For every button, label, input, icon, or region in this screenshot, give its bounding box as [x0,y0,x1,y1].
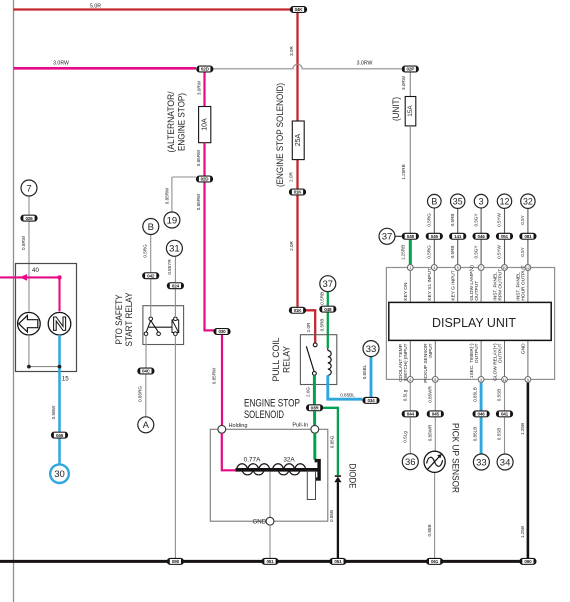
wire 0.5RG node B to relay [142,235,150,317]
svg-text:1.25RB: 1.25RB [401,245,406,260]
pickup sensor [424,451,445,472]
node 12 [497,194,511,208]
connector 046 glow lamp [473,233,490,240]
connector 048 relay coil [319,306,336,313]
svg-text:0.85RW: 0.85RW [212,367,217,384]
connector 090 gnd display [519,558,536,565]
svg-text:04C: 04C [142,369,151,374]
pin label GLOW RELAY(+) OUTPUT [492,343,503,381]
wire 2.0G relay to pull-in [305,375,314,425]
svg-text:(ALTERNATOR/: (ALTERNATOR/ [166,91,177,152]
svg-text:0.5RB: 0.5RB [319,292,324,305]
connector 081 hour [519,233,536,240]
wire 0.5RW node 7 to cluster [21,196,29,311]
pin label PICKUP SENSOR INPUT [423,343,434,383]
label PULL COIL RELAY [271,337,292,382]
wire 3.0RW drop to fuse 15A [401,73,410,97]
svg-text:A: A [143,420,150,431]
svg-text:045: 045 [432,412,440,417]
svg-text:37: 37 [323,279,334,290]
svg-text:3.0RW: 3.0RW [196,80,201,95]
wire 3.0RW link to unit fuse (hop over red) [213,61,402,69]
svg-text:GND: GND [521,343,527,354]
svg-text:34: 34 [500,457,511,468]
DISPLAY UNIT outer box [386,268,554,380]
node 35 [451,194,465,208]
svg-text:0.5Lg: 0.5Lg [403,389,408,401]
svg-text:3.0RW: 3.0RW [357,61,373,67]
svg-text:(UNIT): (UNIT) [391,97,401,121]
svg-text:12: 12 [526,266,530,270]
svg-text:5.0R: 5.0R [90,3,101,9]
svg-text:048: 048 [407,234,415,239]
wire 0.85RW below fuse 10A [196,143,205,176]
node 7 [21,180,37,196]
svg-text:0.5GY: 0.5GY [473,213,478,226]
svg-text:4: 4 [433,266,435,270]
svg-text:0.85RW: 0.85RW [196,193,201,210]
svg-text:0.85RW: 0.85RW [165,187,170,204]
node B [143,219,159,235]
connector 03R pull-in [306,404,323,411]
connector 051 rpm [496,233,513,240]
svg-text:40: 40 [32,267,39,274]
node 37 feed link [395,235,402,237]
svg-text:044: 044 [407,412,415,417]
connector 051 gnd diode [329,558,346,565]
svg-text:0.85B: 0.85B [329,510,334,522]
solenoid box [210,429,327,521]
display unit pins top [407,265,530,271]
wire 1.25RB green into display KEY ON [401,240,411,268]
svg-text:B: B [431,196,437,206]
pin Holding [218,423,248,433]
svg-text:0.5Lg: 0.5Lg [403,431,408,443]
pin label INST. PANEL HOUR OUTPUT [516,265,527,300]
svg-text:Holding: Holding [229,423,248,429]
PTO relay coil [172,317,179,336]
connector 041 glow relay [496,410,513,417]
svg-text:3: 3 [479,196,484,206]
connector 046 neutral [51,432,68,439]
svg-text:045: 045 [431,234,439,239]
solenoid core bar [236,468,319,472]
svg-text:RPM OUTPUT: RPM OUTPUT [497,269,503,301]
svg-text:042: 042 [147,273,155,278]
svg-text:3.0RW: 3.0RW [53,61,69,67]
node 34 [497,454,513,470]
wire 0.85G to diode [323,408,338,475]
wire 0.85BL node 33 drop [362,357,371,397]
solenoid coil 0.77A [237,456,270,474]
svg-text:Pull-In: Pull-In [292,422,308,428]
svg-text:048: 048 [324,307,332,312]
svg-text:02P: 02P [407,67,415,72]
pin label COOLANT TEMP. SWITCH(-)INPUT [398,343,409,381]
svg-text:OUTPUT: OUTPUT [497,343,503,363]
svg-text:081: 081 [524,234,532,239]
svg-text:0.85G: 0.85G [329,435,334,448]
connector 042 pto b [142,272,159,279]
svg-text:INPUT: INPUT [428,343,434,357]
svg-text:ENGINE STOP): ENGINE STOP) [177,93,188,151]
wire 0.5RB from node 37 to relay coil [319,292,327,349]
svg-text:051: 051 [266,559,274,564]
relay contact [306,343,317,375]
connector 044 coolant [402,410,419,417]
wire 0.85YR node 31 to relay coil [167,257,176,317]
relay coil [328,348,331,375]
PTO relay contact [144,317,172,336]
solenoid plunger [307,459,321,500]
svg-text:30: 30 [54,469,65,480]
wire holding coil feed inside [222,433,236,470]
wire lamp commons [27,335,60,369]
connector 01K engine stop feed [289,189,306,196]
pin GND [252,517,273,525]
svg-text:01K: 01K [294,190,303,195]
svg-text:1.25B: 1.25B [520,423,525,435]
svg-text:0.5Y: 0.5Y [520,215,525,224]
svg-text:0.5SB: 0.5SB [497,428,502,441]
svg-text:026: 026 [25,216,33,221]
svg-text:START RELAY: START RELAY [124,292,135,346]
svg-text:DISPLAY UNIT: DISPLAY UNIT [432,315,516,330]
svg-text:0.5YW: 0.5YW [497,212,502,226]
wire 0.5SB glow relay output [497,382,505,454]
svg-text:0.5YW: 0.5YW [497,244,502,258]
connector 034 timer [362,397,379,404]
svg-text:3.0R: 3.0R [289,45,294,55]
wire: left frame bus [13,0,15,602]
svg-text:9: 9 [457,266,459,270]
svg-text:SOLENOID: SOLENOID [244,409,284,421]
wire 2.0R below fuse 25A [289,160,298,189]
svg-text:0.85BL: 0.85BL [340,392,355,397]
svg-text:0.85LB: 0.85LB [473,427,478,442]
svg-text:(ENGINE STOP SOLENOID): (ENGINE STOP SOLENOID) [275,83,286,187]
svg-text:0.85YR: 0.85YR [167,259,172,275]
wire 0.5BW neutral lamp to node 30 [51,335,62,464]
wire 0.85RW to solenoid holding [212,335,222,425]
svg-text:051: 051 [501,234,509,239]
display unit pins bottom [407,377,530,383]
svg-text:0.5Y: 0.5Y [520,247,525,256]
svg-text:32: 32 [523,196,533,206]
pin label 1SEC. TIMER(-) OUTPUT [469,343,480,378]
svg-text:PTO SAFETY: PTO SAFETY [114,294,125,345]
display internal wires bottom [410,340,528,379]
connector 061 gnd pickup [426,558,443,565]
wire solenoid common to GND pin [269,472,271,518]
svg-text:0.5SB: 0.5SB [497,389,502,402]
wire 2.0R to pull coil relay [289,196,298,307]
wire GND pin to ground bus [269,525,271,560]
svg-text:03R: 03R [311,406,320,411]
svg-text:HOUR OUTPUT: HOUR OUTPUT [521,265,527,300]
connector 026 node7 [20,215,37,222]
pin Pull-In [292,422,318,433]
svg-text:15A: 15A [407,105,414,117]
label (ALTERNATOR/ENGINE STOP) [166,91,188,152]
svg-text:19: 19 [167,215,178,226]
connector 024 pto 31 [167,282,184,289]
svg-text:0.85BL: 0.85BL [362,364,367,379]
svg-text:061: 061 [431,559,439,564]
node 30 [50,464,69,483]
wire 0.5Lg coolant temp switch [403,382,411,454]
svg-text:0.5RB: 0.5RB [319,319,324,332]
svg-text:33: 33 [476,457,487,468]
svg-text:15: 15 [62,376,69,383]
wire 0.85RW magenta run down [196,183,214,332]
svg-text:02D: 02D [201,177,210,182]
svg-text:041: 041 [501,412,509,417]
svg-text:0.85WR: 0.85WR [428,386,433,403]
wire 0.5GY from node 3 [473,208,481,264]
wire 5.0R battery feed [14,3,291,9]
svg-text:ENGINE STOP: ENGINE STOP [244,397,300,409]
DISPLAY UNIT inner box [389,302,551,340]
relay PTO box [143,306,184,345]
connector 045 key s1 [426,233,443,240]
svg-text:090: 090 [172,559,180,564]
svg-text:1.25RB: 1.25RB [401,164,406,179]
connector 090 gnd pto [167,558,184,565]
node 37 [379,228,395,244]
svg-text:DIODE: DIODE [348,464,358,489]
svg-text:0.5GY: 0.5GY [473,245,478,258]
node 31 [166,240,182,256]
connector 04C pto a [137,368,154,375]
svg-text:034: 034 [367,398,375,403]
svg-text:35: 35 [453,196,463,206]
connector 02D alternator branch [196,176,213,183]
svg-text:2.0R: 2.0R [289,240,294,250]
indicator lamp arrow [18,312,41,335]
wire magenta into cluster [0,274,62,311]
svg-text:0.5RB: 0.5RB [450,214,455,227]
svg-text:02D: 02D [201,67,210,72]
wire 1.25B ground from display [520,381,528,560]
svg-text:7: 7 [480,266,482,270]
svg-text:11: 11 [503,378,507,382]
svg-text:3: 3 [480,378,482,382]
wire pull-in feed inside [313,433,316,459]
connector 030 holding [213,328,230,335]
connector 048 key on [402,233,419,240]
svg-text:25A: 25A [295,133,302,146]
svg-text:10: 10 [503,266,507,270]
svg-text:0.5BW: 0.5BW [51,405,56,419]
svg-text:KEY G INPUT: KEY G INPUT [451,270,457,300]
connector 02P unit feed [402,66,419,73]
svg-text:B: B [148,222,154,233]
svg-text:046: 046 [56,433,64,438]
pin label INST. PANEL RPM OUTPUT [492,269,503,301]
svg-text:3.0RW: 3.0RW [401,75,406,90]
wire 1.25RB to connector [401,126,410,233]
wire 0.85LB 1sec timer output [473,382,481,454]
pin label GLOW LAMP(V) OUTPUT [469,265,480,301]
svg-text:1: 1 [409,266,411,270]
fuse 10A (ALTERNATOR/ENGINE STOP) [199,107,211,143]
svg-text:2.0R: 2.0R [306,322,311,332]
wire 0.85WR pickup sensor [428,382,436,451]
connector 02D magenta feed [196,66,213,73]
svg-text:1.25B: 1.25B [520,526,525,538]
wire 0.85RG relay to node A [137,336,146,417]
cluster box [16,264,77,372]
svg-text:141: 141 [454,234,462,239]
connector 04K battery feed [290,6,307,13]
svg-text:36: 36 [405,457,416,468]
wire 2.0R jog into relay contact [305,310,316,343]
svg-text:2.0G: 2.0G [305,387,310,397]
label ENGINE STOP SOLENOID [244,397,300,421]
svg-text:030: 030 [218,329,226,334]
svg-text:04K: 04K [295,7,304,12]
node 33 display [473,454,489,470]
node 36 [402,454,418,470]
svg-text:2.0R: 2.0R [289,171,294,181]
node 33 relay [363,341,379,357]
wire branch to node 19 [165,177,196,212]
svg-text:0.85B: 0.85B [427,524,432,536]
wire 3.0RW magenta feed [14,61,197,69]
svg-text:0.85RG: 0.85RG [137,386,142,402]
svg-text:RELAY: RELAY [282,345,293,373]
svg-text:0.85LB: 0.85LB [473,387,478,402]
svg-text:0.5RB: 0.5RB [450,246,455,259]
node B display [428,194,442,208]
svg-text:0.77A: 0.77A [244,456,261,463]
wire PTO relay coil to ground bus [174,336,176,561]
display internal wires top [410,268,528,303]
svg-text:0.85RW: 0.85RW [196,149,201,166]
svg-text:0.5RG: 0.5RG [427,213,432,227]
wire 0.85B diode to ground bus [329,482,338,560]
svg-text:01K: 01K [294,308,303,313]
wire 0.5YW from node 12 [497,208,505,264]
svg-text:0.85WR: 0.85WR [428,424,433,441]
label PTO SAFETY START RELAY [114,292,135,346]
svg-text:051: 051 [334,559,342,564]
node 19 [164,212,180,228]
svg-text:6: 6 [409,378,411,382]
connector 046 timer out [473,410,490,417]
solenoid coil 32A [273,456,306,474]
svg-text:7: 7 [26,183,31,194]
fuse 25A (ENGINE STOP SOLENOID) [292,121,304,160]
svg-text:024: 024 [172,283,180,288]
svg-text:SWITCH(-)INPUT: SWITCH(-)INPUT [403,343,409,381]
wire 0.85LB relay coil to node 33 [328,375,363,399]
wire 0.5RB from node 35 [450,208,458,264]
fuse 15A (UNIT) [405,97,416,126]
svg-text:31: 31 [169,244,180,255]
wire 3.0RW drop to fuse 10A [196,73,204,107]
svg-text:046: 046 [478,234,486,239]
connector 051 gnd solenoid [261,558,278,565]
wire 0.5Y from node 32 [520,208,528,264]
svg-text:32A: 32A [283,456,295,463]
wire ground bus 1.25B [0,560,528,563]
svg-text:12: 12 [500,196,510,206]
svg-text:37: 37 [382,232,393,243]
node 37 relay [320,276,336,292]
svg-text:5: 5 [527,378,529,382]
svg-text:33: 33 [366,344,377,355]
diode D1 [334,464,357,489]
svg-text:0.5RG: 0.5RG [142,244,147,258]
indicator lamp N (neutral) [48,312,71,335]
svg-text:KEY S1 INPUT: KEY S1 INPUT [427,268,433,301]
svg-text:OUTPUT: OUTPUT [474,343,480,363]
svg-text:0.5RW: 0.5RW [21,235,26,250]
svg-text:10A: 10A [201,118,208,131]
svg-text:PULL COIL: PULL COIL [271,337,282,382]
svg-text:046: 046 [478,412,486,417]
svg-text:090: 090 [524,559,532,564]
node 32 [521,194,535,208]
svg-text:PICK UP SENSOR: PICK UP SENSOR [450,423,460,493]
connector 045 pickup [427,410,444,417]
wire 3.0R drop to fuse 25A [289,13,298,121]
svg-text:0.5RG: 0.5RG [427,245,432,259]
svg-text:8: 8 [434,378,436,382]
connector 141 key g [449,233,466,240]
relay PULL COIL RELAY box [300,335,336,385]
connector 01K relay contact [289,307,306,314]
svg-text:GND: GND [252,519,266,526]
svg-text:OUTPUT: OUTPUT [474,281,480,301]
wire 0.5RG from node B [427,208,435,264]
node 3 display [474,194,488,208]
wire 0.85B pickup sensor to ground bus [427,472,435,559]
node A [138,417,154,433]
svg-text:KEY ON: KEY ON [403,282,409,301]
